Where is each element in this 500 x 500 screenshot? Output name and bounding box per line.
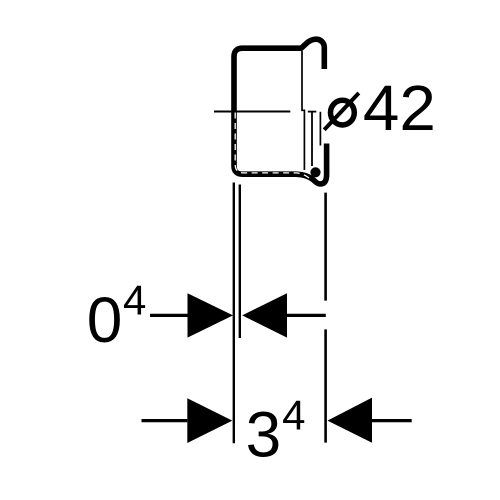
extension line C (right, lower segment) (324, 329, 327, 442)
pipe end tick (T bar) (308, 111, 317, 113)
dimension 3.4 leader right (372, 419, 412, 422)
cap outline (thick profile of end cap) (234, 39, 327, 184)
dimension 0.4 arrow right-pointing (188, 293, 234, 337)
extension line B (middle) (239, 185, 241, 339)
dimension 3.4 leader left (142, 419, 188, 422)
svg-text:42: 42 (363, 72, 436, 144)
svg-text:0: 0 (87, 284, 123, 356)
extension line A (left) (233, 183, 235, 444)
svg-text:3: 3 (246, 399, 282, 471)
dimension 3.4 arrow right-pointing (187, 398, 232, 443)
svg-text:4: 4 (123, 277, 146, 324)
label diameter slash (324, 93, 359, 130)
extension line C (right, upper segment) (324, 193, 327, 301)
dimension 0.4 leader left (150, 314, 188, 317)
svg-text:4: 4 (282, 391, 305, 438)
dimension 3.4 arrow left-pointing (328, 398, 373, 443)
sealing bead (filled dot) (310, 167, 320, 177)
inner right edge of cap (thin) (302, 51, 304, 170)
inner lip edge (thin) (319, 112, 321, 146)
hidden edge (white dashed line inside thick wall) (235, 113, 311, 180)
dimension 0.4 arrow left-pointing (242, 293, 287, 337)
label diameter symbol (drawn ellipse) (331, 100, 355, 125)
pipe wall line (T stem) (311, 112, 313, 166)
dimension 0.4 leader right (287, 314, 326, 317)
centerline (214, 111, 290, 113)
